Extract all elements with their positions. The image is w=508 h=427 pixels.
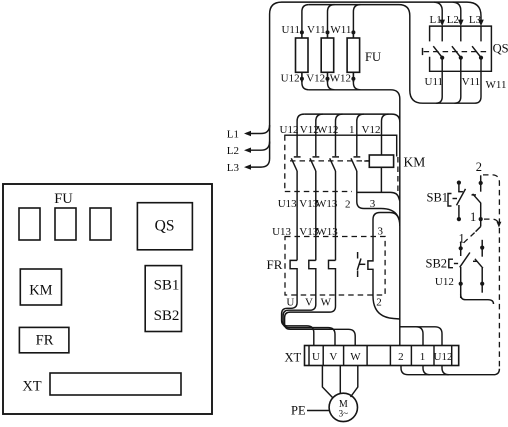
svg-text:U11: U11: [281, 24, 300, 36]
svg-text:L1: L1: [227, 128, 239, 140]
svg-text:V12: V12: [362, 124, 381, 136]
svg-text:U: U: [312, 351, 320, 363]
svg-text:L2: L2: [447, 14, 459, 26]
svg-text:SB2: SB2: [154, 308, 180, 324]
svg-text:U11: U11: [425, 76, 444, 88]
svg-text:W12: W12: [330, 73, 351, 85]
svg-text:PE: PE: [291, 404, 306, 418]
svg-text:XT: XT: [285, 351, 302, 365]
svg-text:3: 3: [370, 198, 376, 210]
svg-text:U12: U12: [281, 73, 300, 85]
svg-text:W: W: [321, 297, 332, 309]
svg-text:3: 3: [378, 226, 384, 238]
svg-text:V12: V12: [300, 124, 319, 136]
svg-text:QS: QS: [493, 42, 508, 56]
svg-text:3~: 3~: [339, 409, 349, 419]
svg-text:L3: L3: [469, 14, 482, 26]
svg-text:2: 2: [476, 160, 482, 174]
svg-text:KM: KM: [404, 155, 426, 170]
svg-text:1: 1: [349, 124, 355, 136]
svg-text:XT: XT: [22, 379, 41, 395]
svg-text:2: 2: [345, 199, 351, 211]
svg-text:U12: U12: [280, 124, 299, 136]
svg-text:FU: FU: [365, 50, 381, 64]
svg-text:U13: U13: [278, 198, 297, 210]
svg-text:1: 1: [459, 232, 465, 246]
svg-text:FR: FR: [267, 257, 283, 272]
svg-text:V11: V11: [462, 76, 481, 88]
svg-text:L2: L2: [227, 145, 239, 157]
svg-text:W11: W11: [330, 24, 351, 36]
svg-text:V11: V11: [307, 24, 326, 36]
svg-text:2: 2: [376, 297, 382, 309]
svg-text:U12: U12: [435, 276, 454, 288]
svg-text:2: 2: [398, 351, 404, 363]
svg-text:KM: KM: [29, 282, 52, 298]
svg-text:V: V: [329, 351, 337, 363]
svg-text:SB1: SB1: [154, 278, 180, 294]
svg-text:W13: W13: [316, 198, 338, 210]
svg-text:L3: L3: [227, 162, 240, 174]
svg-text:FR: FR: [36, 333, 54, 349]
svg-text:W12: W12: [317, 124, 338, 136]
svg-text:W11: W11: [486, 79, 507, 91]
svg-text:W: W: [350, 351, 361, 363]
svg-text:1: 1: [420, 351, 426, 363]
svg-text:L1: L1: [430, 14, 442, 26]
svg-text:SB2: SB2: [426, 257, 448, 271]
svg-text:QS: QS: [155, 218, 175, 235]
svg-text:U12: U12: [434, 351, 453, 363]
svg-text:U: U: [286, 297, 294, 309]
svg-text:V12: V12: [306, 73, 325, 85]
svg-text:FU: FU: [54, 191, 73, 207]
svg-text:1: 1: [470, 210, 476, 224]
svg-text:V: V: [305, 297, 313, 309]
svg-text:SB1: SB1: [427, 191, 449, 205]
